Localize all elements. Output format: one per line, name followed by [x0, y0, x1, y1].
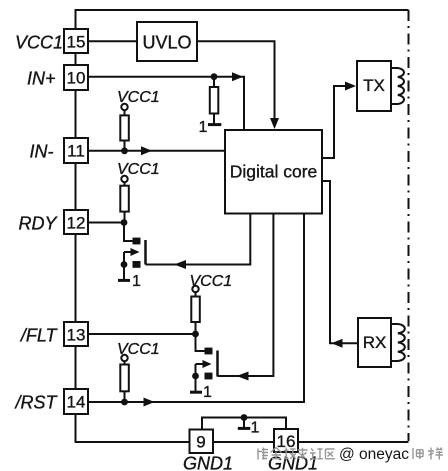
wire top VCC1 rail: [76, 9, 409, 11]
wire pin9 to pin16 top loop: [202, 418, 286, 430]
svg-text:RX: RX: [363, 333, 387, 352]
svg-text:@ oneyac: @ oneyac: [339, 446, 409, 463]
svg-text:10: 10: [67, 69, 86, 88]
pin box 15: [64, 29, 88, 53]
ground (center tap): [243, 418, 245, 429]
wire RX to Digital core: [322, 181, 358, 343]
watermark: [258, 448, 335, 460]
ground (Q2 source): [190, 391, 202, 394]
resistor (IN- pull-up): [120, 110, 129, 151]
svg-text:1: 1: [251, 420, 260, 437]
svg-text:VCC1: VCC1: [15, 32, 63, 52]
svg-text:/RST: /RST: [13, 392, 58, 412]
transistor Q1 (RDY open-drain MOSFET): [124, 223, 146, 280]
arrow IN- toward core: [141, 146, 152, 155]
transformer coil (TX): [391, 68, 404, 104]
pin box 13: [64, 322, 88, 346]
svg-text:IN-: IN-: [30, 141, 54, 161]
arrow RDY gate: [174, 260, 186, 269]
VCC1 terminal (/RST pull-up): [117, 341, 160, 361]
svg-text:/FLT: /FLT: [19, 325, 59, 345]
wire left pin bus: [75, 9, 77, 442]
svg-text:15: 15: [67, 33, 86, 52]
arrowheads: [141, 72, 356, 406]
pin box 16: [274, 429, 298, 452]
UVLO block U1: [137, 22, 197, 61]
svg-text:13: 13: [67, 326, 86, 345]
arrow into TX: [345, 82, 356, 91]
svg-text:1: 1: [203, 384, 212, 401]
wire Digital core to TX: [322, 86, 353, 158]
node /RST junction: [121, 399, 128, 406]
svg-text:14: 14: [67, 393, 86, 412]
svg-text:1: 1: [199, 119, 208, 136]
node GND1 center tap: [241, 414, 248, 421]
wire RDY gate from Digital core: [146, 214, 251, 265]
pin box 10: [64, 65, 88, 90]
arrow RX toward core: [332, 339, 343, 348]
wire pin15 to UVLO: [88, 40, 137, 42]
arrow UVLO into core top: [270, 118, 279, 129]
wire /FLT to pull-up node: [88, 333, 196, 335]
wire IN+ to Digital core: [88, 77, 244, 130]
wire /FLT gate from Digital core: [218, 214, 274, 377]
svg-text:IN+: IN+: [27, 68, 56, 88]
ground (IN+ pull-down): [208, 123, 221, 126]
svg-text:11: 11: [67, 142, 85, 161]
node RDY junction: [121, 219, 128, 226]
node IN- pull-up junction: [121, 147, 128, 154]
wire bottom GND1 rail: [75, 441, 409, 443]
svg-text:GND1: GND1: [183, 454, 233, 471]
resistor (/RST pull-up): [120, 361, 129, 402]
wire IN- to Digital core: [88, 150, 225, 152]
svg-text:Digital core: Digital core: [230, 162, 318, 182]
svg-text:9: 9: [196, 433, 205, 452]
pin box 9: [190, 430, 214, 454]
svg-text:TX: TX: [363, 76, 385, 95]
isolation barrier (dash-dot): [408, 10, 410, 441]
wire /RST to Digital core: [88, 214, 304, 403]
TX block: [357, 61, 391, 111]
wire UVLO output to Digital core: [197, 41, 275, 126]
arrow /FLT gate: [237, 372, 249, 381]
node /FLT junction: [192, 331, 199, 338]
transformer coil (RX): [391, 324, 405, 361]
VCC1 terminal (/FLT pull-up): [190, 273, 233, 292]
arrow IN+ into core: [232, 72, 243, 81]
wire RDY to pull-up node: [88, 222, 124, 224]
svg-text:UVLO: UVLO: [142, 32, 191, 52]
RX block: [358, 318, 391, 367]
svg-text:1: 1: [132, 273, 141, 290]
VCC1 terminal (RDY pull-up): [117, 161, 160, 182]
resistor (/FLT pull-up): [191, 292, 200, 334]
svg-text:12: 12: [67, 214, 86, 233]
Digital core block: [225, 130, 322, 214]
pin box 12: [64, 210, 88, 234]
node IN+ junction: [211, 73, 218, 80]
VCC1 terminal (IN- pull-up): [117, 89, 160, 110]
pin box 14: [64, 389, 88, 414]
arrow /RST toward core: [144, 398, 155, 407]
transistor Q2 (/FLT open-drain MOSFET): [196, 334, 218, 391]
resistor (IN+ pull-down): [210, 77, 219, 124]
pin box 11: [64, 138, 88, 163]
svg-text:RDY: RDY: [18, 213, 58, 233]
resistor (RDY pull-up): [120, 182, 129, 222]
ground (Q1 source): [118, 279, 130, 282]
